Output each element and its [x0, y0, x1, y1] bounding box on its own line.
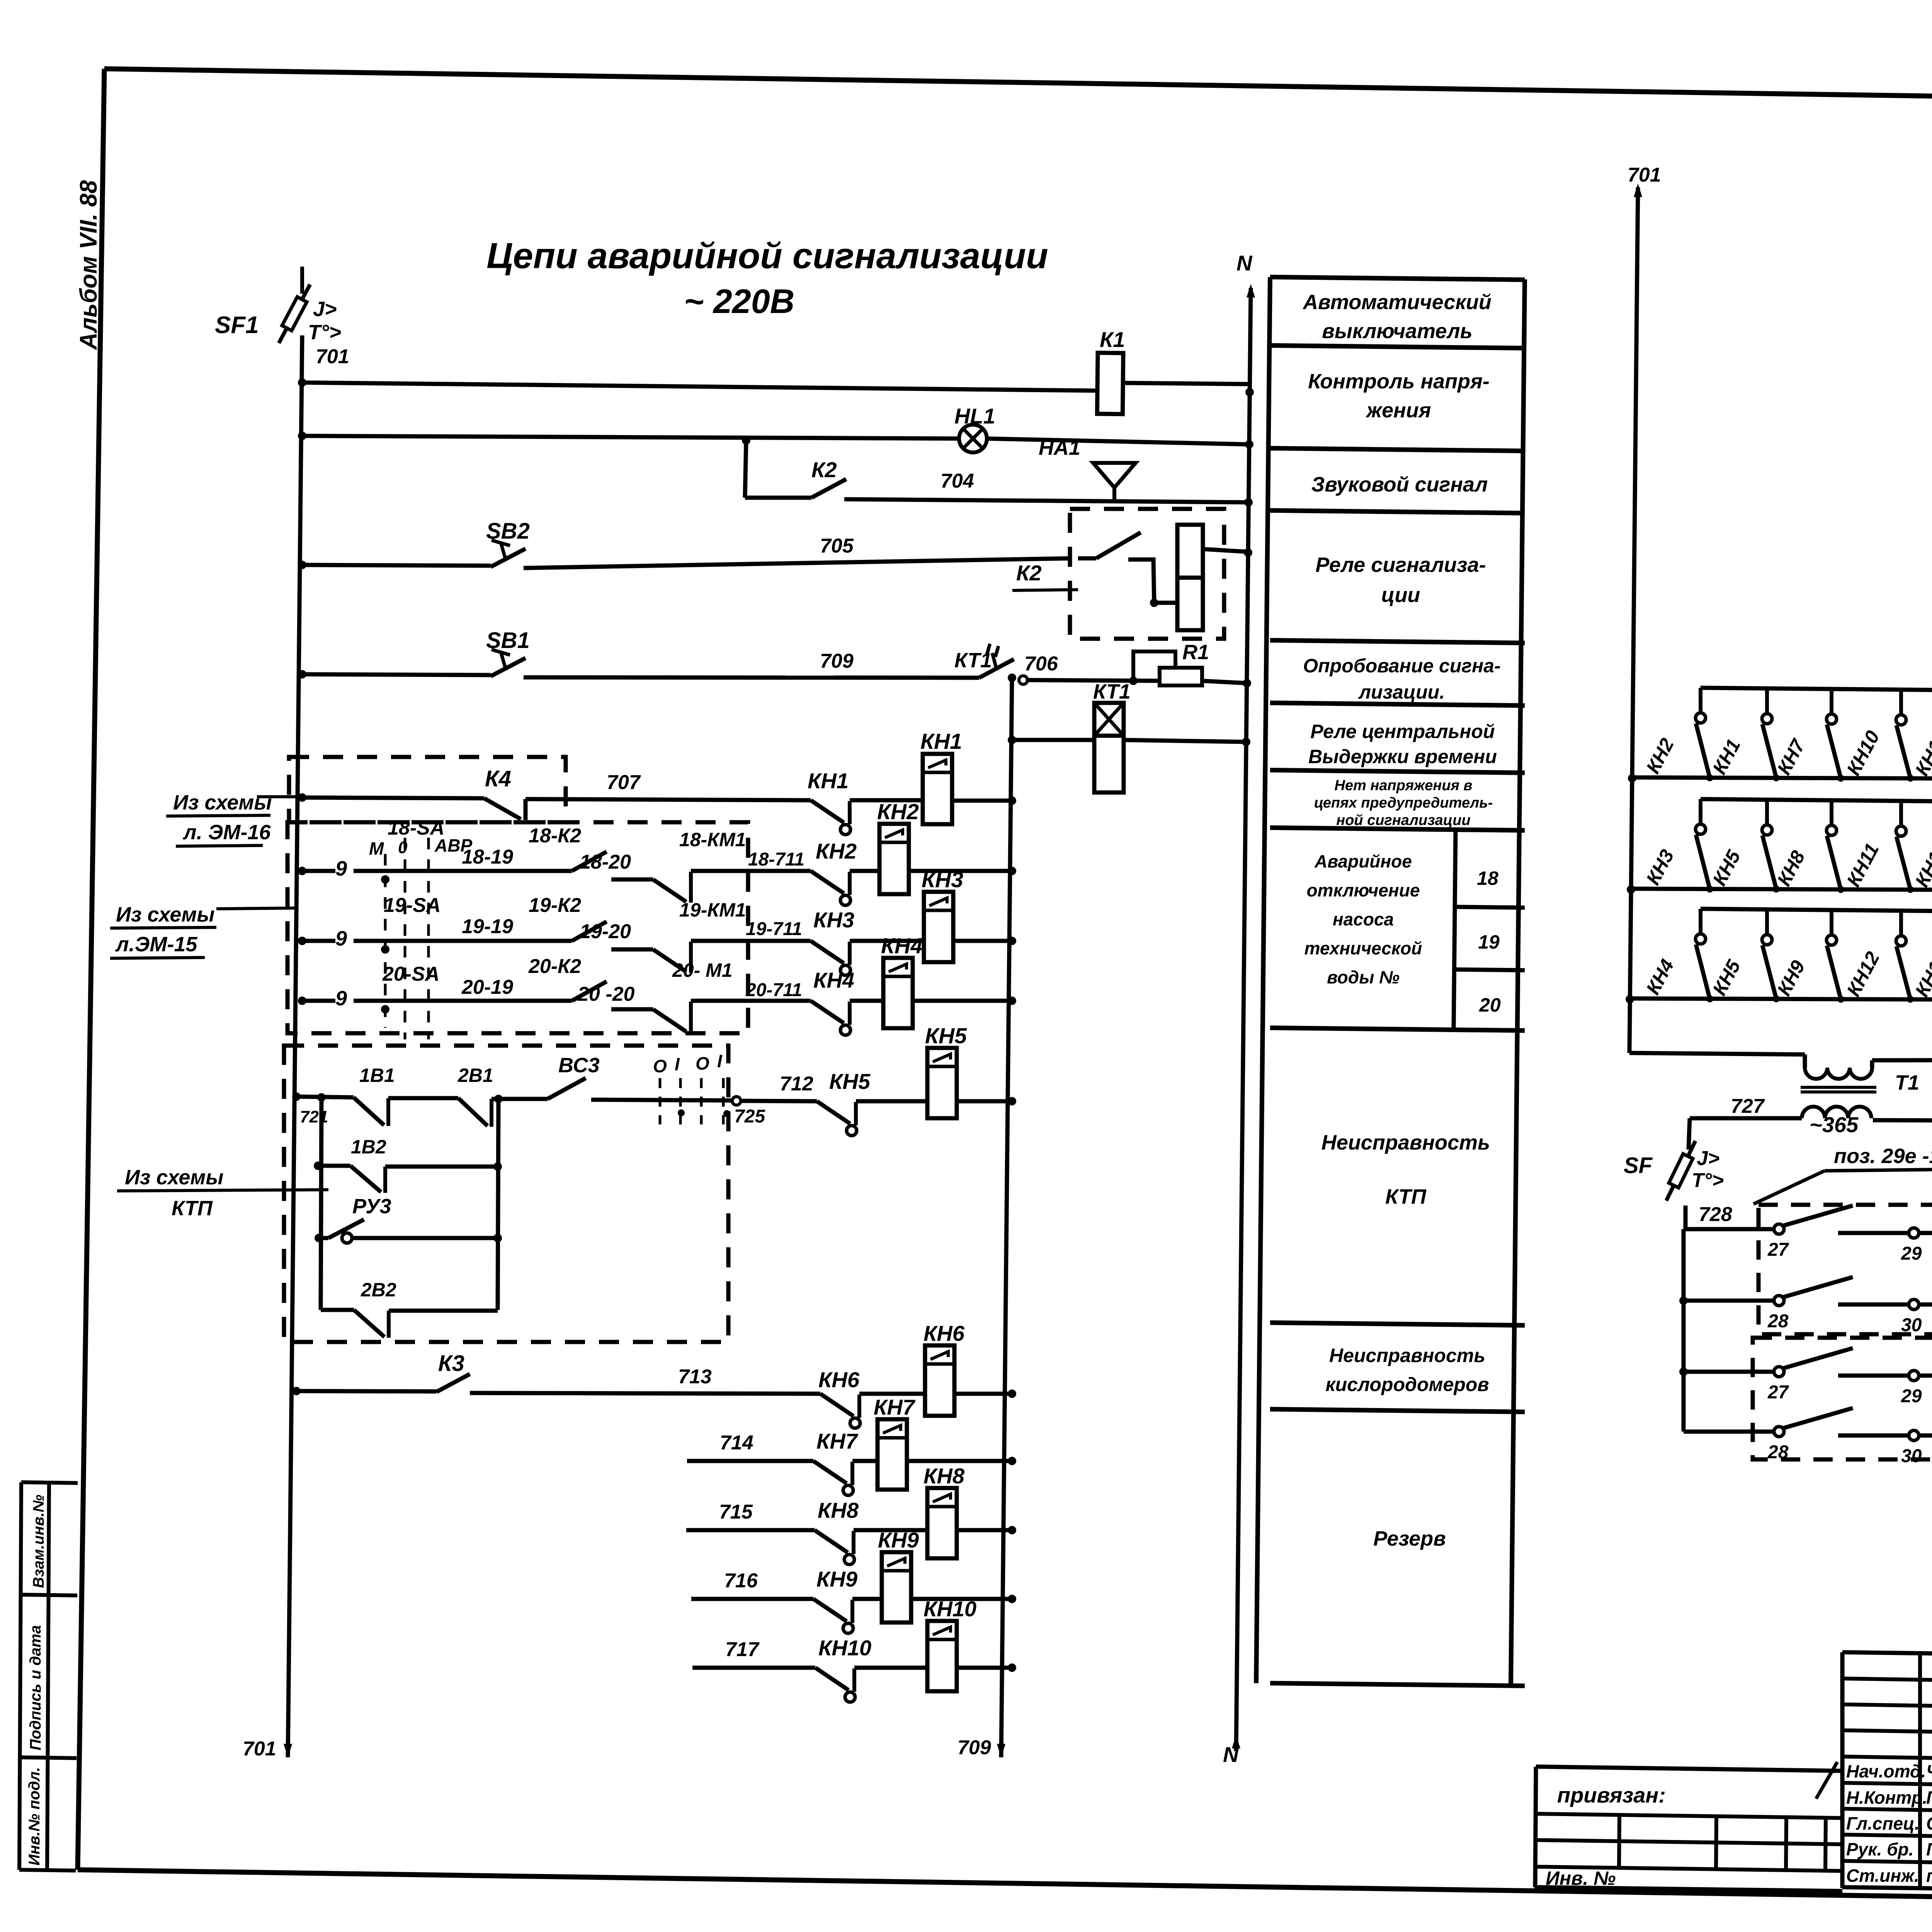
svg-text:728: 728	[1699, 1203, 1732, 1226]
svg-text:л. ЭМ-16: л. ЭМ-16	[182, 821, 271, 844]
svg-text:КН5: КН5	[829, 1069, 871, 1094]
wire КН9 coil to bus 709	[911, 1597, 1012, 1601]
svg-text:20-К2: 20-К2	[528, 955, 581, 978]
wire row 717	[692, 1666, 815, 1670]
relay coil КН9	[882, 1552, 911, 1622]
svg-text:КН8: КН8	[923, 1464, 965, 1488]
svg-text:20- М1: 20- М1	[672, 959, 733, 981]
wire primary right to lamp bus	[1872, 1060, 1932, 1060]
dashed box KTP	[284, 1046, 728, 1342]
svg-text:0: 0	[398, 838, 408, 857]
svg-text:М: М	[369, 838, 384, 859]
svg-text:R1: R1	[1182, 641, 1209, 664]
wire row 1B2	[314, 1162, 322, 1170]
contact KT1 (time) on row 709	[979, 659, 1014, 678]
wire 709	[524, 677, 979, 678]
svg-text:20-19: 20-19	[461, 976, 513, 998]
svg-text:Нет напряжения в: Нет напряжения в	[1335, 777, 1473, 794]
svg-text:Сафонова: Сафонова	[1926, 1813, 1932, 1833]
svg-text:Нач.отд.: Нач.отд.	[1846, 1761, 1926, 1781]
wire row 28-30 (box2)	[1684, 1430, 1775, 1434]
wire row 19 from bus	[298, 937, 306, 945]
dashed box поз.29е-1	[1759, 1205, 1932, 1334]
svg-text:Резерв: Резерв	[1373, 1527, 1446, 1550]
wire KN1 coil to bus 709	[952, 799, 1012, 803]
bus 709 bottom arrow	[997, 1744, 1005, 1757]
svg-text:J>: J>	[1697, 1147, 1719, 1170]
wire KT1 coil to N	[1124, 740, 1246, 742]
svg-text:КН10: КН10	[818, 1636, 871, 1660]
svg-text:КН1: КН1	[808, 769, 849, 793]
svg-text:Неисправность: Неисправность	[1321, 1131, 1490, 1154]
svg-text:712: 712	[780, 1073, 813, 1095]
svg-text:прибуш: прибуш	[1926, 1866, 1932, 1886]
wire KN6 coil to bus 709	[954, 1392, 1012, 1396]
svg-text:технической: технической	[1304, 938, 1422, 958]
svg-text:КН8: КН8	[818, 1498, 859, 1522]
svg-text:9: 9	[335, 857, 347, 880]
contact 30 (box2)	[1838, 1434, 1909, 1438]
contact КН10	[815, 1668, 849, 1690]
wire 19-711	[691, 939, 811, 943]
svg-text:Рук. бр.: Рук. бр.	[1846, 1839, 1914, 1859]
wire 20-20 segment	[611, 1007, 653, 1012]
svg-text:Альбом VII. 88: Альбом VII. 88	[75, 180, 102, 350]
svg-text:Подпись и дата: Подпись и дата	[27, 1625, 44, 1750]
svg-text:К1: К1	[1100, 327, 1125, 352]
svg-text:Из схемы: Из схемы	[173, 791, 272, 814]
svg-text:18-19: 18-19	[462, 846, 513, 868]
pushbutton SB2	[298, 561, 306, 569]
contact КН1 in bank 724	[1765, 689, 1769, 713]
svg-text:К2: К2	[1016, 561, 1042, 585]
svg-text:КН4: КН4	[881, 934, 923, 958]
contact КН9	[813, 1599, 847, 1621]
wire 729	[1918, 1231, 1932, 1235]
function table column	[1256, 277, 1270, 1683]
wire 18-20 segment	[611, 878, 653, 882]
svg-text:19: 19	[1478, 931, 1500, 953]
svg-text:І: І	[675, 1054, 680, 1074]
wire 703 secondary right	[1873, 1120, 1932, 1121]
svg-text:20: 20	[1479, 994, 1501, 1016]
svg-text:19-КМ1: 19-КМ1	[679, 899, 746, 921]
svg-text:Н.Контр.: Н.Контр.	[1846, 1787, 1927, 1808]
svg-text:Ст.инж.: Ст.инж.	[1846, 1866, 1919, 1886]
contact 28 (box1)	[1774, 1296, 1784, 1306]
svg-text:КН7: КН7	[816, 1429, 859, 1453]
svg-text:Неисправность: Неисправность	[1329, 1345, 1485, 1366]
svg-text:30: 30	[1901, 1446, 1922, 1466]
relay coil KN2	[879, 824, 909, 894]
pushbutton SB1	[298, 670, 306, 679]
contact 28 (box2)	[1774, 1427, 1784, 1437]
wire row 28-30 (box1)	[1679, 1296, 1688, 1305]
wire collector vertical in KTP box	[498, 1099, 498, 1310]
contact КН8 in bank 725	[1830, 800, 1833, 824]
svg-text:2В1: 2В1	[457, 1065, 493, 1086]
svg-text:9: 9	[335, 987, 347, 1010]
svg-text:Петроченко: Петроченко	[1926, 1839, 1932, 1859]
svg-text:І: І	[717, 1051, 723, 1071]
svg-text:19-711: 19-711	[746, 919, 802, 939]
svg-text:721: 721	[300, 1107, 328, 1126]
relay coil KN4	[883, 958, 913, 1028]
svg-text:30: 30	[1901, 1315, 1922, 1335]
svg-text:701: 701	[243, 1738, 276, 1760]
wire row 716	[691, 1597, 813, 1601]
svg-text:Автоматический: Автоматический	[1302, 291, 1492, 314]
svg-text:20 -20: 20 -20	[577, 983, 635, 1005]
svg-text:715: 715	[719, 1501, 753, 1523]
jumper over R1	[1133, 651, 1175, 681]
contact 1B1	[354, 1097, 384, 1125]
contact KN6	[820, 1394, 854, 1416]
привязан box	[1536, 1767, 1842, 1771]
svg-text:КН9: КН9	[878, 1528, 919, 1552]
selector dashed verticals M/0/ABP	[404, 838, 406, 1039]
svg-text:701: 701	[1628, 164, 1661, 186]
svg-text:КН10: КН10	[923, 1597, 976, 1621]
wire 704 to HA1 and N	[844, 499, 1248, 502]
svg-text:КТ1: КТ1	[1093, 680, 1131, 703]
wire sub-vertical in KTP box	[321, 1097, 321, 1310]
svg-text:18-КМ1: 18-КМ1	[679, 829, 746, 850]
svg-text:18-SA: 18-SA	[388, 817, 444, 839]
relay coil KN3	[924, 892, 953, 962]
svg-text:Гл.спец.: Гл.спец.	[1846, 1813, 1920, 1833]
svg-text:727: 727	[1731, 1095, 1765, 1117]
wire row 707 with contact K4	[298, 793, 306, 802]
signature grid	[1842, 1652, 1932, 1656]
svg-text:N: N	[1236, 251, 1253, 275]
svg-text:привязан:: привязан:	[1557, 1783, 1666, 1807]
contact КН5 in bank 725	[1765, 800, 1769, 824]
svg-text:РУ3: РУ3	[352, 1195, 391, 1218]
wire КН7 coil to bus 709	[907, 1459, 1012, 1463]
wire 713	[470, 1393, 820, 1394]
contact 19-КМ1	[653, 949, 686, 972]
contact 20-КМ1	[653, 1009, 686, 1032]
wire R1 to N	[1202, 681, 1247, 683]
svg-text:29: 29	[1901, 1386, 1922, 1406]
contact 20-К2	[572, 981, 607, 1001]
svg-text:716: 716	[724, 1570, 758, 1592]
svg-text:HL1: HL1	[954, 404, 995, 428]
svg-text:SB1: SB1	[486, 628, 530, 653]
svg-text:19-К2: 19-К2	[529, 894, 581, 917]
wire bank 726 bottom rail	[1626, 995, 1634, 1003]
contact KN4 on row 20-711	[811, 1001, 844, 1023]
contact КН2 in bank 724	[1699, 688, 1702, 712]
contact 29 (box1)	[1838, 1231, 1909, 1235]
wire lamp row 724 top rail	[1700, 690, 1701, 690]
transformer T1 primary winding	[1805, 1068, 1872, 1079]
contact 2B1	[458, 1098, 488, 1126]
svg-text:18-711: 18-711	[748, 849, 804, 870]
svg-text:SF: SF	[1624, 1153, 1653, 1178]
svg-text:Реле сигнализа-: Реле сигнализа-	[1315, 553, 1486, 577]
svg-text:19-SA: 19-SA	[384, 894, 440, 917]
wire КН10 coil to bus 709	[957, 1666, 1012, 1670]
svg-text:КН2: КН2	[816, 839, 857, 863]
contact K3	[437, 1374, 470, 1392]
svg-text:КН3: КН3	[813, 908, 854, 932]
contact 2B2	[354, 1310, 384, 1337]
contact KN5	[817, 1101, 850, 1124]
contact 30 (box1)	[1838, 1303, 1909, 1307]
svg-text:выключатель: выключатель	[1322, 320, 1473, 343]
svg-text:J>: J>	[313, 298, 337, 321]
contact КН7	[813, 1461, 847, 1483]
wire row 18 from bus	[298, 867, 306, 875]
wire to 2B1	[388, 1096, 458, 1100]
relay coil KN1	[923, 754, 952, 824]
contact КН4 in bank 726	[1699, 909, 1702, 933]
wire contact to K2 coil	[1128, 560, 1177, 603]
relay coil KN6	[925, 1345, 954, 1416]
svg-text:HA1: HA1	[1039, 436, 1080, 459]
contact KN3 on row 19-711	[811, 941, 844, 963]
svg-text:кислородомеров: кислородомеров	[1325, 1374, 1489, 1395]
contact 19-К2	[572, 922, 607, 941]
wire lamp row 726 top rail	[1700, 911, 1701, 912]
contact КН8	[815, 1530, 848, 1553]
wire branch from HL1 row down to 704	[742, 436, 750, 445]
relay coil КН8	[927, 1488, 957, 1558]
svg-text:725: 725	[734, 1106, 765, 1127]
svg-text:жения: жения	[1365, 399, 1431, 422]
svg-text:Инв.№ подл.: Инв.№ подл.	[26, 1767, 43, 1866]
svg-text:2В2: 2В2	[361, 1279, 396, 1301]
svg-text:20-SA: 20-SA	[382, 963, 439, 985]
svg-text:О: О	[653, 1056, 667, 1076]
svg-text:К2: К2	[811, 457, 837, 482]
circuit breaker SF1	[300, 267, 304, 294]
time relay coil KT1	[1094, 703, 1124, 736]
contact KN2 on row 18-711	[811, 871, 844, 893]
привязан box bottom	[1534, 1887, 1842, 1891]
wire 18-711	[691, 869, 811, 873]
contact КН12 in bank 726	[1899, 911, 1903, 935]
svg-text:КН2: КН2	[877, 799, 919, 824]
svg-text:Контроль напря-: Контроль напря-	[1308, 370, 1490, 393]
svg-text:SF1: SF1	[215, 312, 259, 338]
wire 727 secondary left	[1690, 1116, 1802, 1121]
svg-text:КТП: КТП	[1385, 1185, 1427, 1208]
wire SF down to 728	[1684, 1206, 1688, 1229]
left margin cells	[21, 1482, 78, 1483]
wire K1 to N	[1123, 383, 1250, 384]
wire row 701 to K1	[298, 378, 306, 387]
contact КН11 in bank 725	[1899, 801, 1903, 825]
contact КН7 in bank 724	[1830, 689, 1833, 713]
wire row 713 with contact K3	[292, 1387, 301, 1395]
svg-text:л.ЭМ-15: л.ЭМ-15	[115, 933, 197, 956]
svg-text:709: 709	[820, 650, 854, 672]
svg-text:ной сигнализации: ной сигнализации	[1336, 812, 1470, 828]
wire КН8 coil to bus 709	[957, 1528, 1012, 1532]
relay coil КН10	[927, 1621, 957, 1691]
wire KN4 coil to bus 709	[913, 999, 1012, 1003]
svg-text:Цепи аварийной сигнализации: Цепи аварийной сигнализации	[486, 235, 1048, 276]
dashed box K4	[289, 757, 566, 822]
contact КН9 in bank 726	[1830, 910, 1833, 934]
svg-text:Из схемы: Из схемы	[125, 1166, 224, 1189]
svg-text:Из схемы: Из схемы	[116, 903, 215, 926]
dashed box поз.29е-2	[1753, 1338, 1932, 1459]
svg-text:ции: ции	[1381, 583, 1420, 607]
svg-text:Чижиков: Чижиков	[1926, 1761, 1932, 1781]
svg-text:18: 18	[1477, 867, 1498, 889]
svg-text:Т1: Т1	[1895, 1071, 1919, 1094]
svg-text:ВС3: ВС3	[558, 1054, 600, 1077]
svg-text:704: 704	[940, 470, 974, 492]
wire row RU3	[315, 1234, 323, 1242]
wire bus 701 left vertical	[288, 335, 302, 1757]
bus N bottom arrow	[1232, 1735, 1240, 1748]
svg-text:К4: К4	[485, 766, 511, 791]
svg-text:1В2: 1В2	[351, 1136, 386, 1158]
wire KN5 coil to bus 709	[957, 1099, 1012, 1104]
svg-text:709: 709	[957, 1736, 991, 1759]
svg-text:КН9: КН9	[816, 1567, 857, 1591]
svg-text:N: N	[1223, 1742, 1239, 1767]
svg-text:18-20: 18-20	[580, 851, 631, 873]
svg-text:О: О	[696, 1053, 709, 1073]
bus 701 bottom arrow	[284, 1744, 292, 1757]
svg-text:Поздняково: Поздняково	[1926, 1787, 1932, 1808]
wire 709 bus to KT1 coil	[1008, 736, 1016, 744]
lamp HL1	[959, 425, 987, 452]
wire bank 725 bottom rail	[1627, 885, 1635, 894]
contact RU3	[328, 1219, 364, 1238]
svg-text:29: 29	[1901, 1243, 1922, 1264]
contact 1B2	[350, 1166, 381, 1192]
svg-text:19-20: 19-20	[580, 920, 631, 943]
contact КН10 in bank 724	[1899, 690, 1903, 714]
svg-text:Аварийное: Аварийное	[1314, 851, 1412, 871]
wire row 715	[686, 1528, 815, 1532]
wire row 701 to HL1	[298, 432, 306, 440]
svg-text:отключение: отключение	[1307, 880, 1420, 900]
svg-text:КН4: КН4	[813, 968, 854, 992]
wire 19-20 segment	[611, 947, 653, 952]
svg-text:Взам.инв.№: Взам.инв.№	[30, 1495, 47, 1588]
svg-text:Опробование сигна-: Опробование сигна-	[1303, 655, 1501, 677]
relay coil K2 (two-section)	[1177, 525, 1203, 578]
wire 706 with resistor R1	[1019, 676, 1027, 684]
svg-text:КН5: КН5	[925, 1024, 967, 1048]
svg-text:701: 701	[316, 345, 349, 368]
svg-text:лизации.: лизации.	[1358, 681, 1445, 703]
svg-text:воды №: воды №	[1327, 967, 1400, 987]
contact КН5 in bank 726	[1765, 910, 1769, 934]
svg-text:717: 717	[725, 1638, 760, 1661]
svg-text:КТП: КТП	[172, 1197, 213, 1220]
selector O-I-O-I columns	[659, 1078, 662, 1124]
wire 712 through selector	[591, 1100, 732, 1100]
svg-text:Выдержки времени: Выдержки времени	[1308, 746, 1497, 767]
contact 29 (box2)	[1838, 1374, 1909, 1378]
wire 712 to KN5 contact	[732, 1097, 741, 1105]
svg-text:706: 706	[1024, 653, 1058, 675]
wire row 714	[687, 1459, 813, 1463]
wire 20-711	[691, 999, 811, 1003]
svg-text:714: 714	[720, 1432, 753, 1454]
svg-text:Реле центральной: Реле центральной	[1310, 721, 1495, 742]
wire lamp row 725 top rail	[1700, 801, 1701, 802]
svg-text:19-19: 19-19	[462, 915, 513, 938]
svg-text:К3: К3	[438, 1351, 464, 1376]
wire primary left from bus 701	[1629, 1053, 1805, 1054]
svg-text:КН1: КН1	[920, 729, 962, 754]
contact 18-КМ1	[653, 879, 686, 902]
svg-text:28: 28	[1767, 1442, 1789, 1463]
wire left collector (29e boxes)	[1682, 1229, 1686, 1432]
svg-text:КН7: КН7	[874, 1395, 916, 1419]
circuit breaker SF (left of T1 secondary)	[1662, 1139, 1701, 1203]
contact 27 (box2)	[1774, 1367, 1784, 1377]
svg-text:цепях предупредитель-: цепях предупредитель-	[1314, 795, 1493, 811]
svg-text:поз. 29е -1: поз. 29е -1	[1834, 1145, 1932, 1168]
svg-text:КН6: КН6	[923, 1321, 965, 1345]
contact K2 inside box	[1078, 556, 1096, 561]
wire HL1 to N	[986, 439, 1249, 444]
svg-text:707: 707	[607, 771, 641, 794]
wire bus 709 middle vertical	[1001, 677, 1012, 1757]
wire 705	[524, 558, 1070, 568]
svg-text:насоса: насоса	[1333, 909, 1394, 929]
wire KN2 coil to bus 709	[909, 869, 1012, 873]
svg-text:SB2: SB2	[486, 519, 530, 544]
svg-text:КТ1: КТ1	[954, 649, 992, 672]
svg-text:T°>: T°>	[1692, 1169, 1724, 1192]
relay coil КН7	[878, 1419, 907, 1490]
sounder HA1	[1093, 463, 1136, 488]
svg-text:28: 28	[1767, 1311, 1789, 1332]
svg-text:27: 27	[1767, 1382, 1789, 1403]
svg-text:Звуковой сигнал: Звуковой сигнал	[1311, 473, 1488, 496]
contact BC3	[548, 1078, 586, 1099]
dashed box 18/19/20 pump rows	[287, 822, 748, 1033]
transformer T1 core	[1801, 1086, 1876, 1089]
contact 18-К2	[572, 852, 607, 871]
contact K2 (NO) on wire 704	[745, 496, 811, 500]
svg-text:18-К2: 18-К2	[529, 825, 581, 847]
contact КН3 in bank 725	[1699, 799, 1702, 823]
svg-text:1В1: 1В1	[359, 1065, 395, 1086]
wire row 721 from bus	[292, 1092, 301, 1101]
svg-text:T°>: T°>	[308, 321, 341, 344]
wire K2 coil to N	[1203, 549, 1248, 552]
relay coil KN5	[927, 1048, 957, 1118]
svg-text:27: 27	[1767, 1240, 1789, 1260]
resistor R1	[1160, 668, 1202, 685]
svg-text:~365: ~365	[1810, 1112, 1859, 1137]
relay K2 dashed box	[1070, 509, 1224, 639]
svg-text:КН3: КН3	[922, 867, 963, 892]
svg-text:705: 705	[820, 535, 854, 557]
wire row 2B2	[321, 1308, 354, 1312]
svg-text:~ 220В: ~ 220В	[684, 282, 794, 320]
svg-text:713: 713	[678, 1366, 712, 1388]
wire bank 724 bottom rail	[1628, 774, 1636, 782]
svg-text:9: 9	[335, 927, 347, 950]
relay coil K1	[1097, 353, 1123, 414]
svg-text:Инв. №: Инв. №	[1546, 1867, 1616, 1889]
wire row 27-29 (box2)	[1679, 1367, 1688, 1376]
